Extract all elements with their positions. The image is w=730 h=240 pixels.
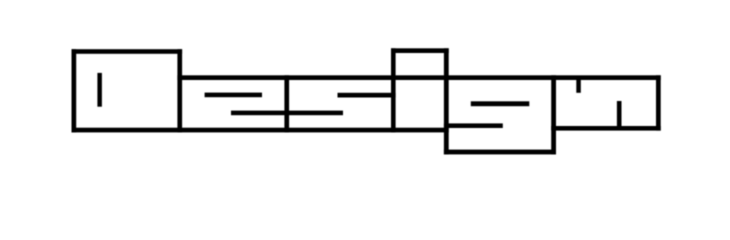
letter i right stem (g left edge) [444, 48, 449, 154]
letter n lower tick [617, 101, 622, 131]
letter g descender bottom bar [444, 150, 556, 155]
letter e lower inner bar crossing into s [231, 111, 343, 116]
shared top bar of e s i g n row [177, 75, 660, 80]
letter n right stem [656, 75, 661, 130]
letter D inner tick [97, 73, 102, 107]
letter D right stem [177, 49, 182, 132]
letter n bottom bar [551, 126, 661, 131]
letter i top box cap [391, 48, 449, 53]
letter n upper tick [576, 77, 581, 93]
letter i left stem (s right edge) [391, 48, 396, 132]
letter g upper inner bar [471, 101, 530, 106]
baseline bottom bar from D through s [72, 128, 449, 133]
letter e / s divider stem [284, 75, 289, 132]
letter D top bar [72, 49, 183, 54]
letter g lower inner bar [444, 123, 503, 128]
letter D left stem [72, 49, 77, 132]
letter s upper inner bar [338, 93, 396, 98]
letter e upper inner bar [205, 93, 262, 98]
letter g right stem (n left edge) [551, 75, 556, 154]
